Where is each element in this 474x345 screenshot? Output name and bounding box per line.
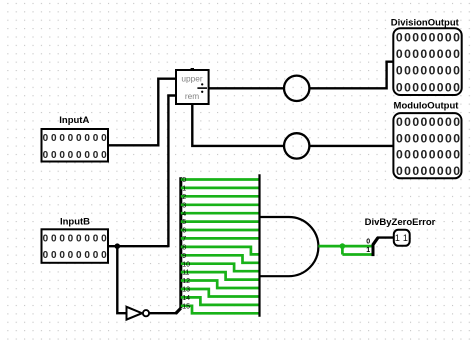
wire circle 2 to ModuloOutput [309,145,393,147]
svg-text:00000000: 00000000 [396,148,460,162]
svg-text:00000000: 00000000 [396,47,460,61]
svg-text:1: 1 [366,247,370,254]
svg-text:1: 1 [182,186,186,193]
svg-text:InputB: InputB [60,217,90,228]
svg-text:rem: rem [185,91,199,101]
svg-text:00000000: 00000000 [396,131,460,145]
wire InputB to vertical riser [107,245,168,247]
junction green node [340,243,346,249]
splitter S1 leg 8 wire [181,247,260,255]
svg-text:1: 1 [403,233,408,243]
svg-text:3: 3 [182,202,186,209]
division sign [197,87,207,89]
divider U1 [176,68,209,104]
splitter S1 leg 14 wire [181,297,260,305]
svg-text:00000000: 00000000 [396,64,460,78]
svg-text:11: 11 [182,270,189,277]
splitter S1 leg 9 wire [181,255,260,262]
splitter S1 bar [179,177,182,308]
svg-text:4: 4 [182,211,186,218]
splitter S2 bar [372,244,375,256]
svg-text:DivByZeroError: DivByZeroError [365,217,436,228]
wire circle 1 to DivisionOutput [309,62,393,89]
wire green to splitter S2 leg 1 [342,253,371,256]
subcircuit circle B1 [284,76,309,101]
svg-text:DivisionOutput: DivisionOutput [391,17,460,28]
NOT gate G2 [127,307,150,320]
svg-text:InputA: InputA [59,115,89,126]
splitter S1 leg 7 wire [181,237,260,240]
wire green branch down [341,246,344,254]
svg-text:8: 8 [182,245,186,252]
wire InputB branch down to NOT gate [117,246,126,313]
svg-text:9: 9 [182,253,186,260]
splitter S1 leg 12 wire [181,281,260,289]
input pin InputA [42,115,109,161]
splitter S1 leg 4 wire [181,212,260,215]
svg-text:00000000: 00000000 [396,30,460,44]
AND gate G1 input line [258,174,260,317]
splitter S1 (1x16) trunk [176,308,181,313]
splitter S1 leg 3 wire [181,203,260,206]
splitter S1 leg 2 wire [181,195,260,198]
wire NOT gate output to splitter origin [149,312,176,314]
svg-text:ModuloOutput: ModuloOutput [394,101,460,112]
splitter S1 leg 10 wire [181,264,260,272]
AND gate G1 body [260,217,319,276]
splitter S1 leg 6 wire [181,229,260,232]
svg-text:00000000: 00000000 [396,164,460,178]
wire green to splitter S2 leg 0 [342,245,371,248]
svg-text:5: 5 [182,219,186,226]
svg-text:15: 15 [182,303,190,310]
north port stub [191,68,194,70]
splitter S2 trunk [373,238,378,245]
svg-text:12: 12 [182,278,190,285]
svg-text:0: 0 [366,239,370,246]
wire divider south (remainder) to buffer circle 2 [192,104,284,146]
svg-text:00000000: 00000000 [396,80,460,94]
splitter S1 leg 13 wire [181,289,260,297]
svg-text:10: 10 [182,261,190,268]
wire InputA to divider [107,79,176,146]
splitter S1 leg 0 wire [181,178,260,181]
svg-text:13: 13 [182,287,190,294]
output pin DivByZeroError [365,217,436,246]
svg-text:0: 0 [182,177,186,184]
svg-text:7: 7 [182,236,186,243]
splitter S1 leg 5 wire [181,220,260,223]
wire AND output (green) [318,245,342,248]
output pin ModuloOutput [393,101,461,179]
splitter S1 leg 1 wire [181,187,260,190]
svg-text:14: 14 [182,295,190,302]
wire divider east (quotient) to buffer circle 1 [209,87,284,89]
junction on InputB wire [115,243,121,249]
splitter S1 leg 15 wire [181,306,260,314]
svg-text:00000000: 00000000 [396,115,460,129]
svg-text:2: 2 [182,194,186,201]
subcircuit circle B2 [284,133,309,158]
input pin InputB [42,217,109,263]
svg-text:6: 6 [182,228,186,235]
svg-text:upper: upper [181,74,202,84]
svg-text:1: 1 [395,233,400,243]
splitter S1 leg 11 wire [181,272,260,280]
wire riser to divider lower port [168,96,176,248]
wire splitter S2 to DivByZeroError pin [377,236,394,238]
output pin DivisionOutput [391,17,462,95]
